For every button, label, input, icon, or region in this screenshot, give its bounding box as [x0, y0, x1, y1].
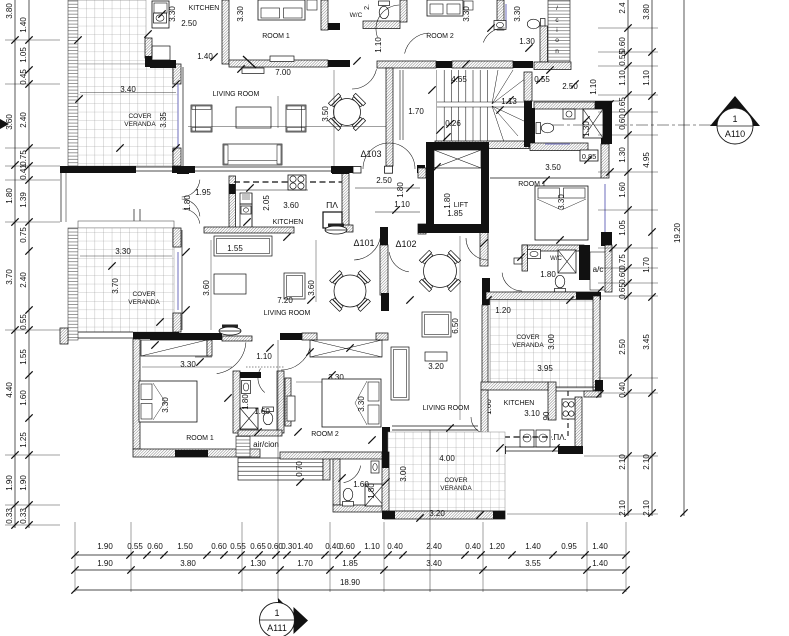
svg-text:3.55: 3.55 — [525, 559, 541, 568]
black pier right mid — [576, 292, 601, 300]
kitchenC top right black pier — [595, 380, 603, 391]
right chain extension lines — [507, 28, 658, 514]
stair right wall hatch — [524, 72, 532, 101]
svg-text:Δ101: Δ101 — [353, 238, 374, 248]
dim line 3.30 verB — [80, 255, 172, 257]
bed room 2 top — [427, 0, 463, 16]
svg-text:2.10: 2.10 — [618, 500, 627, 516]
svg-text:COVER: COVER — [444, 477, 467, 484]
interior dimension ticks — [74, 10, 616, 521]
wcC bottom wall — [333, 505, 390, 512]
washbasin wcC — [371, 461, 379, 473]
svg-text:COVER: COVER — [128, 113, 151, 120]
kitchenB counter line — [251, 193, 253, 228]
armchair A left — [191, 105, 212, 132]
kitchenC west wall — [481, 390, 488, 447]
svg-text:3.30: 3.30 — [161, 397, 170, 413]
door arc D102 — [389, 252, 409, 272]
roomC2 bottom wall — [280, 452, 384, 459]
svg-text:1.10: 1.10 — [618, 70, 627, 86]
left outer dimension chain — [5, 0, 19, 529]
svg-text:VERANDA: VERANDA — [124, 121, 156, 128]
svg-text:0.30: 0.30 — [281, 542, 297, 551]
bed C1 — [139, 381, 197, 422]
sofa 1.55 — [214, 236, 272, 256]
svg-text:2.4: 2.4 — [618, 2, 627, 14]
svg-text:2.10: 2.10 — [642, 500, 651, 516]
svg-text:3.60: 3.60 — [307, 280, 316, 296]
svg-text:1.90: 1.90 — [97, 559, 113, 568]
svg-text:0.55: 0.55 — [19, 314, 28, 330]
washbasin C — [242, 381, 251, 394]
bottom chain row 2 — [71, 559, 629, 574]
air shaft left wall — [540, 26, 548, 62]
veranda B grid — [78, 228, 174, 332]
svg-text:0.60: 0.60 — [618, 114, 627, 130]
svg-text:3.30: 3.30 — [180, 360, 196, 369]
door arc wc — [376, 5, 399, 37]
door arc D103 double — [363, 143, 415, 169]
hallB top black pier — [177, 166, 189, 174]
svg-text:3.80: 3.80 — [642, 4, 651, 20]
svg-text:3.30: 3.30 — [115, 247, 131, 256]
armchair B — [284, 273, 305, 299]
cistern wc-tr — [563, 109, 575, 119]
aptC west pier black — [380, 227, 388, 245]
svg-text:0.65: 0.65 — [250, 542, 266, 551]
coffee table A — [236, 107, 271, 128]
wcB connector stub — [514, 258, 522, 264]
kitchenB east wall — [342, 171, 349, 228]
svg-text:a/c: a/c — [593, 265, 604, 274]
nightstand room1 — [307, 0, 317, 10]
svg-text:3.70: 3.70 — [111, 278, 120, 294]
wcC right black — [382, 462, 390, 512]
verandaC2 west pier — [382, 452, 389, 468]
svg-text:0.75: 0.75 — [19, 227, 28, 243]
window veranda B blue — [177, 252, 179, 310]
svg-text:0.40: 0.40 — [465, 542, 481, 551]
showerroom top wall black — [240, 372, 261, 378]
kitchen A counter box — [152, 46, 170, 60]
veranda B top border — [78, 221, 174, 228]
svg-text:i: i — [556, 27, 557, 34]
armchair A right — [286, 105, 306, 132]
svg-text:3.60: 3.60 — [283, 201, 299, 210]
svg-text:1.90: 1.90 — [19, 475, 28, 491]
svg-text:o: o — [555, 37, 559, 44]
livingroomA bottom black mid — [172, 166, 195, 173]
livingroomA bottom black west — [60, 166, 136, 173]
svg-text:VERANDA: VERANDA — [128, 299, 160, 306]
wcC left wall — [333, 459, 340, 505]
svg-text:1.55: 1.55 — [227, 244, 243, 253]
hallC top wall thin — [222, 336, 252, 341]
svg-text:VERANDA: VERANDA — [512, 342, 544, 349]
livC bottom slider — [392, 425, 478, 427]
svg-text:2.50: 2.50 — [181, 19, 197, 28]
black pier below — [482, 278, 490, 305]
svg-text:3.30: 3.30 — [236, 6, 245, 22]
kitchenB dashed overhead — [234, 181, 344, 183]
wall room1/wc divider — [321, 0, 328, 30]
dining table C — [447, 278, 461, 292]
stair winder fan upper — [492, 70, 498, 104]
stair winder fan lower — [492, 106, 504, 142]
svg-text:4.40: 4.40 — [5, 382, 14, 398]
wall room2 east — [497, 0, 504, 30]
svg-text:0.70: 0.70 — [295, 461, 304, 477]
svg-text:7.20: 7.20 — [277, 296, 293, 305]
svg-text:1.10: 1.10 — [394, 200, 410, 209]
air shaft C top wall — [238, 430, 282, 436]
svg-text:A111: A111 — [267, 623, 287, 633]
verandaC east wall — [593, 296, 600, 390]
aptB bottom black 2 — [280, 333, 302, 340]
svg-text:1: 1 — [732, 114, 737, 124]
dim extension lines near dining A — [333, 70, 335, 166]
kitchenB bottom wall corner — [342, 225, 353, 232]
svg-text:/: / — [556, 5, 558, 12]
svg-text:Δ103: Δ103 — [360, 149, 381, 159]
svg-text:3.20: 3.20 — [428, 362, 444, 371]
svg-text:0.60: 0.60 — [147, 542, 163, 551]
hallB/kitchenB wall — [229, 176, 236, 228]
toilet wcB — [555, 275, 566, 293]
svg-text:1.05: 1.05 — [618, 220, 627, 236]
verandaC2 bottom black east — [493, 511, 505, 519]
aptC west wall hatch — [380, 245, 388, 295]
svg-text:3.30: 3.30 — [557, 194, 566, 210]
aptB bottom hatch 2 — [302, 333, 317, 340]
svg-text:1.10: 1.10 — [589, 79, 598, 95]
svg-text:COVER: COVER — [516, 334, 539, 341]
toilet top right room — [527, 19, 545, 30]
svg-text:1.60: 1.60 — [19, 390, 28, 406]
lift corner hatch left — [418, 168, 426, 178]
svg-text:0.75: 0.75 — [19, 150, 28, 166]
svg-text:1.40: 1.40 — [297, 542, 313, 551]
svg-text:1: 1 — [274, 608, 279, 618]
kitchen A south wall black — [150, 60, 176, 68]
right exterior wall wcB hatch — [605, 245, 612, 292]
room1B top line — [490, 177, 601, 179]
dim vlines living B — [210, 240, 212, 330]
aptB bottom hatch 3 — [376, 333, 388, 340]
svg-text:LIFT: LIFT — [454, 202, 469, 209]
svg-text:1.95: 1.95 — [195, 188, 211, 197]
niche 0.85 — [580, 150, 598, 161]
verandaC2 west wall — [382, 452, 389, 511]
svg-text:3.80: 3.80 — [180, 559, 196, 568]
svg-text:18.90: 18.90 — [340, 578, 361, 587]
svg-text:90: 90 — [542, 411, 551, 420]
svg-text:1.40: 1.40 — [592, 542, 608, 551]
door arc room2 top — [405, 33, 430, 54]
dining table A — [351, 116, 365, 130]
svg-text:1.70: 1.70 — [642, 257, 651, 273]
a/c niche outline — [590, 252, 606, 290]
verandaC2 bottom wall — [384, 511, 505, 519]
kitchenC bottom slider — [506, 446, 558, 448]
wardrobe C1 — [141, 340, 207, 356]
svg-text:LIVING ROOM: LIVING ROOM — [264, 310, 311, 317]
kitchenB counter top edge — [236, 189, 308, 191]
roomC1 bottom window black — [175, 450, 208, 457]
svg-text:1.30: 1.30 — [250, 559, 266, 568]
wall livingA east — [386, 68, 393, 166]
svg-text:3.30: 3.30 — [462, 6, 471, 22]
wc-tr right wall black — [601, 109, 612, 144]
dim line 3.40 — [80, 92, 176, 94]
corridor lines x400 — [399, 70, 401, 140]
verandaC2 grid bottom — [388, 432, 505, 511]
verandaC grid — [490, 300, 593, 388]
kitchenB fridge — [240, 193, 252, 204]
planter top right — [325, 226, 347, 234]
window room2 right blue — [505, 4, 507, 28]
svg-text:0.60: 0.60 — [211, 542, 227, 551]
wall below lift hatch — [480, 232, 488, 266]
left chain extension lines — [5, 40, 60, 525]
svg-text:3.30: 3.30 — [513, 6, 522, 22]
section marker A111 — [260, 598, 309, 636]
sofa livC — [391, 347, 409, 400]
aptC west pier black2 — [381, 293, 389, 311]
svg-text:0.55: 0.55 — [230, 542, 246, 551]
svg-text:0.33: 0.33 — [5, 508, 14, 524]
dim line 3.30 C1 — [142, 366, 232, 368]
svg-text:2.50: 2.50 — [618, 339, 627, 355]
lift corner hatch left2 — [418, 224, 426, 234]
black pier top wall 1 — [328, 60, 350, 67]
svg-text:3.60: 3.60 — [5, 114, 14, 130]
svg-text:3.30: 3.30 — [357, 396, 366, 412]
svg-text:1.60: 1.60 — [254, 407, 270, 416]
svg-text:1.85: 1.85 — [342, 559, 358, 568]
door jambs D103 — [353, 167, 361, 174]
window livingroomA bottom — [136, 166, 172, 168]
verandaC bottom wall corner vertical — [548, 382, 556, 420]
lift black frame — [426, 142, 489, 232]
air shaft C ladder — [236, 436, 250, 457]
svg-text:VERANDA: VERANDA — [440, 485, 472, 492]
svg-text:air/cion: air/cion — [253, 440, 279, 449]
svg-text:LIVING ROOM: LIVING ROOM — [423, 405, 470, 412]
door arc room1B entry — [466, 238, 488, 260]
right inner dimension chain — [618, 0, 632, 517]
kitchenB east wall black top — [332, 166, 349, 174]
dim line 3.30 C2 — [296, 381, 380, 383]
dim lines corridor B — [355, 187, 420, 189]
svg-text:0.45: 0.45 — [19, 69, 28, 85]
shower wcB — [558, 250, 576, 273]
dim vline living C — [459, 236, 461, 420]
svg-text:.ΠΛ.: .ΠΛ. — [551, 433, 567, 442]
kitchenC bottom black east — [558, 446, 583, 454]
black pier top wall 3 — [513, 61, 533, 68]
veranda B bottom black — [133, 332, 179, 339]
verandaC/kitchen wall — [481, 382, 548, 390]
shower wc-tr — [583, 109, 603, 138]
svg-text:COVER: COVER — [132, 291, 155, 298]
wall top right part — [452, 61, 513, 68]
svg-text:2.: 2. — [364, 4, 371, 10]
svg-text:3.10: 3.10 — [524, 409, 540, 418]
roomC2 east pier black — [382, 427, 390, 462]
toilet wc-tr — [536, 123, 554, 134]
svg-text:3.40: 3.40 — [426, 559, 442, 568]
roomC2 door leaf — [287, 396, 295, 421]
wc-tr bottom wall — [530, 143, 588, 151]
kitchenC bottom black west — [481, 446, 506, 454]
bed room 1 top — [258, 0, 305, 20]
svg-text:3.20: 3.20 — [429, 509, 445, 518]
door arc kitchenC — [471, 417, 487, 434]
svg-text:0.65: 0.65 — [618, 97, 627, 113]
svg-text:1.80: 1.80 — [5, 188, 14, 204]
livingroomA bottom slider — [195, 166, 331, 168]
shower C — [240, 408, 258, 429]
svg-text:3.50: 3.50 — [545, 163, 561, 172]
sofa table C — [422, 312, 451, 337]
livingroomA west boundary — [182, 67, 184, 166]
livingB west boundary line — [181, 230, 183, 330]
svg-text:3.35: 3.35 — [159, 112, 168, 128]
svg-text:0.75: 0.75 — [618, 254, 627, 270]
svg-text:1.50: 1.50 — [177, 542, 193, 551]
svg-text:1.55: 1.55 — [19, 349, 28, 365]
svg-text:1.05: 1.05 — [19, 47, 28, 63]
wcB bottom wall — [514, 292, 576, 299]
under stair wall — [435, 141, 529, 149]
veranda A grid upper — [78, 0, 146, 64]
wcB top wall — [522, 245, 584, 251]
svg-text:1.85: 1.85 — [447, 209, 463, 218]
dining table B — [356, 297, 370, 311]
door arc C2 — [281, 348, 310, 370]
verandaC top black pier — [576, 292, 601, 300]
stair treads lower flight — [444, 107, 487, 142]
svg-text:1.70: 1.70 — [408, 107, 424, 116]
stair left stringer — [436, 70, 438, 141]
window sill below wall — [242, 68, 264, 74]
wc-tr top wall — [534, 102, 595, 109]
left inner dimension chain — [19, 0, 33, 529]
svg-text:1.80: 1.80 — [241, 394, 250, 410]
kitchenC fridge dashed vertical — [567, 391, 569, 438]
wall livC east — [482, 305, 488, 390]
svg-text:3.00: 3.00 — [547, 334, 556, 350]
kitchenC stove — [562, 399, 575, 419]
svg-text:1.20: 1.20 — [495, 306, 511, 315]
planter west — [219, 327, 241, 335]
section marker A110 — [710, 96, 760, 144]
right overall dimension 19.20 — [673, 0, 688, 517]
right exterior wall wcB black — [604, 232, 612, 245]
window veranda A right blue — [177, 84, 179, 148]
door arc room1A — [352, 69, 377, 89]
kitchenB unit — [240, 204, 252, 228]
verandaC bottom opening lines — [556, 386, 595, 388]
veranda B right wall top — [173, 228, 181, 247]
lift machine X box — [434, 150, 481, 168]
svg-text:4.95: 4.95 — [642, 152, 651, 168]
veranda B right wall bottom — [173, 313, 181, 332]
svg-text:1.80: 1.80 — [396, 182, 405, 198]
svg-text:1.10: 1.10 — [374, 37, 383, 53]
svg-text:7.00: 7.00 — [275, 68, 291, 77]
svg-text:4.65: 4.65 — [451, 75, 467, 84]
toilet C mid — [263, 407, 274, 425]
right exterior wall black top — [601, 101, 612, 109]
nightstand room2 — [464, 1, 473, 10]
svg-text:W/C: W/C — [350, 12, 363, 19]
svg-text:1.90: 1.90 — [5, 475, 14, 491]
svg-text:1.40: 1.40 — [592, 559, 608, 568]
svg-text:3.45: 3.45 — [642, 334, 651, 350]
toilet wc top — [379, 1, 390, 19]
black pier top wall 2 — [436, 61, 452, 68]
wall wc/room2 — [400, 0, 407, 22]
svg-text:1.20: 1.20 — [489, 542, 505, 551]
veranda B bottom lines — [78, 331, 133, 333]
svg-text:3.95: 3.95 — [537, 364, 553, 373]
wall right of stairs — [323, 452, 330, 480]
svg-text:19.20: 19.20 — [673, 222, 682, 243]
kitchen A sink unit — [152, 1, 169, 28]
svg-text:1.40: 1.40 — [19, 17, 28, 33]
svg-text:ROOM 1: ROOM 1 — [186, 435, 214, 442]
svg-text:W/C: W/C — [550, 256, 562, 262]
svg-text:6.50: 6.50 — [451, 318, 460, 334]
stairs C — [238, 458, 323, 480]
centerline x278 — [277, 340, 279, 600]
toilet wcC — [343, 488, 354, 506]
black pier wc — [328, 23, 340, 30]
kitchen A west wall black — [145, 56, 152, 67]
left edge cut mark — [0, 119, 9, 129]
svg-text:2.05: 2.05 — [262, 195, 271, 211]
door arc toilet room top — [483, 28, 505, 43]
aptB bottom black bar — [150, 333, 222, 340]
lift inner white — [434, 150, 481, 224]
roomC2 west wall — [285, 378, 291, 426]
svg-text:2.50: 2.50 — [376, 176, 392, 185]
kitchen A west wall — [145, 38, 152, 58]
door arc wcC — [344, 466, 361, 483]
shower wcC — [365, 484, 384, 506]
washbasin top right — [494, 21, 506, 30]
bottom chain row 3 total — [71, 578, 629, 594]
door arc verandaB to hall — [182, 209, 199, 224]
door arc D101 — [354, 236, 381, 260]
svg-text:LIVING ROOM: LIVING ROOM — [213, 91, 260, 98]
wc-tr left wall black — [530, 108, 535, 143]
svg-text:A110: A110 — [725, 129, 745, 139]
door arc wcB — [502, 273, 522, 291]
svg-text:1.80: 1.80 — [540, 270, 556, 279]
wall wc south — [363, 21, 400, 29]
svg-text:0.33: 0.33 — [19, 508, 28, 524]
svg-text:1.70: 1.70 — [297, 559, 313, 568]
svg-text:1.40: 1.40 — [525, 542, 541, 551]
dim line corridor — [530, 100, 620, 102]
showerroom left wall — [233, 371, 240, 433]
veranda A right wall top piece — [173, 64, 181, 84]
centerline to A110 — [552, 124, 714, 126]
svg-text:ΠΛ: ΠΛ — [326, 200, 338, 210]
